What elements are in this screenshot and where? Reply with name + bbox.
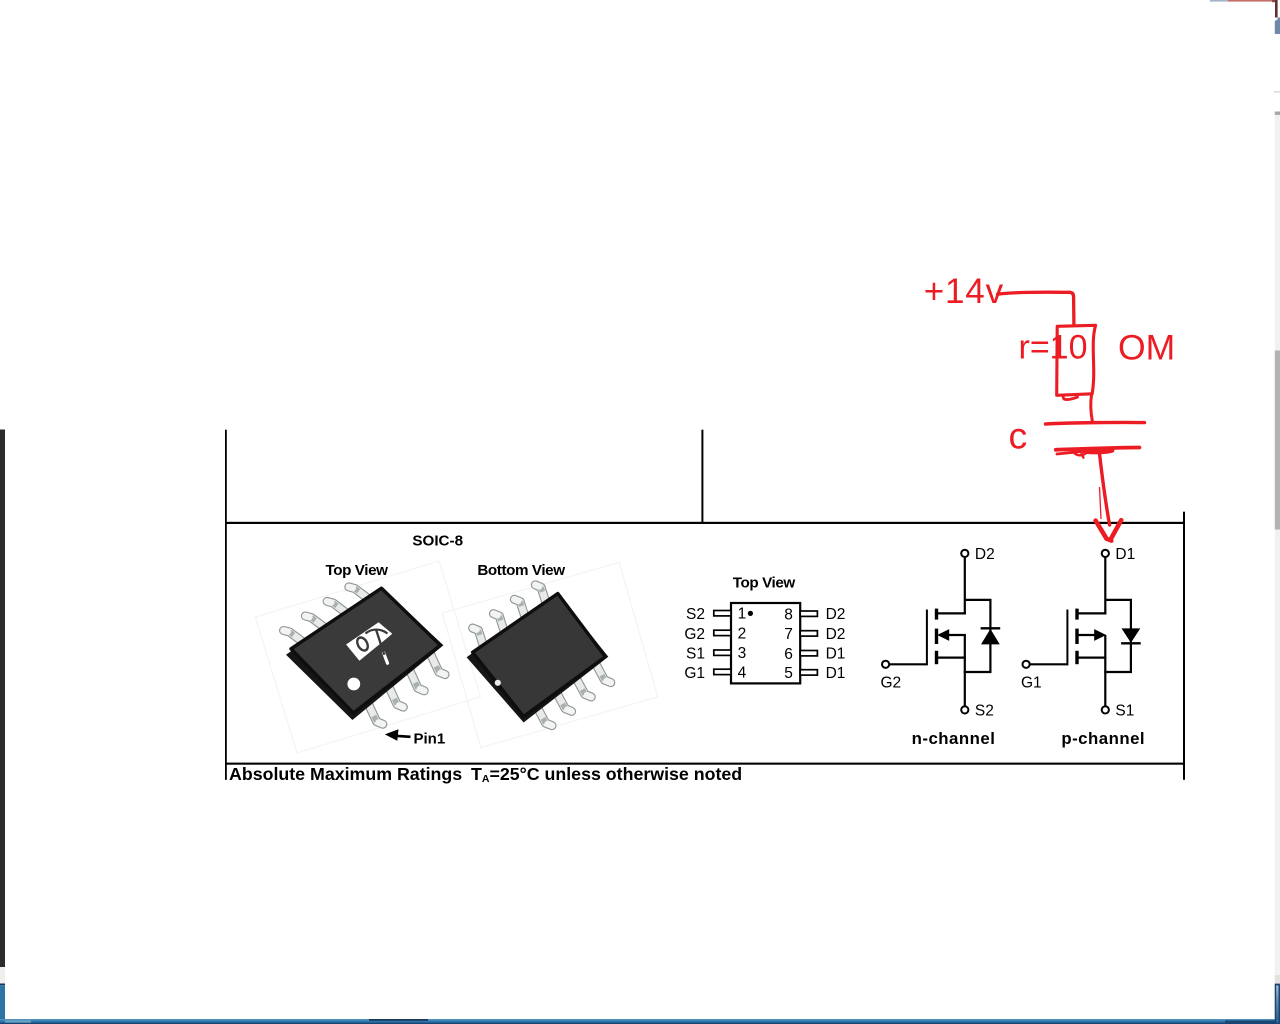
- svg-text:G1: G1: [684, 665, 705, 682]
- svg-text:OM: OM: [1118, 328, 1175, 368]
- svg-text:Bottom View: Bottom View: [477, 562, 565, 579]
- svg-text:2: 2: [738, 625, 747, 642]
- transistor Q1 n-channel: [882, 550, 1000, 714]
- table rule: upper-left vertical: [225, 430, 227, 780]
- pin stub left 3: [714, 650, 731, 655]
- svg-text:D2: D2: [826, 606, 846, 623]
- svg-text:n-channel: n-channel: [912, 729, 996, 748]
- pin1 dot marker: [748, 611, 753, 616]
- pin1 white dot on package: [347, 678, 360, 691]
- pin stub right 6: [800, 651, 817, 656]
- svg-text:5: 5: [784, 665, 793, 682]
- Pin1 callout arrow: [395, 736, 411, 737]
- svg-text:+14v: +14v: [924, 272, 1004, 311]
- svg-text:Top View: Top View: [325, 562, 388, 579]
- pin stub right 7: [800, 631, 817, 636]
- figure box right vertical: [1183, 512, 1185, 780]
- resistor R1 (hand drawn box): [1057, 325, 1096, 395]
- svg-text:S2: S2: [686, 606, 705, 623]
- svg-text:D2: D2: [826, 626, 846, 643]
- right scrollbar: [1274, 91, 1280, 92]
- svg-text:3: 3: [738, 645, 747, 662]
- svg-text:D1: D1: [1115, 546, 1135, 563]
- SOIC-8 package top view: leads upper-left: [284, 587, 370, 644]
- capacitor C1 bottom plate: [1056, 448, 1140, 450]
- svg-text:7: 7: [784, 626, 793, 643]
- wire resistor to capacitor: [1091, 394, 1093, 421]
- svg-text:4: 4: [738, 664, 747, 681]
- top-right window fragment: [1210, 0, 1228, 2]
- pin stub right 5: [800, 670, 817, 675]
- svg-text:c: c: [1009, 415, 1028, 457]
- svg-text:D1: D1: [826, 665, 846, 682]
- SOIC-8 package bottom view: leads upper-left: [473, 585, 547, 649]
- SOIC-8 package bottom view: body: [467, 593, 609, 723]
- svg-text:SOIC-8: SOIC-8: [412, 532, 463, 549]
- svg-text:p-channel: p-channel: [1061, 729, 1145, 748]
- wire from +14v to resistor: [998, 292, 1074, 324]
- svg-text:S2: S2: [975, 703, 994, 720]
- svg-text:Top View: Top View: [733, 575, 796, 592]
- red arrow wire down to D1: [1099, 453, 1109, 525]
- left window edge dark bar: [0, 430, 5, 968]
- figure box bottom rule: [225, 763, 1185, 765]
- faint photo border (top view): [255, 561, 480, 753]
- pin stub left 1: [714, 611, 731, 616]
- SOIC-8 package top view: body: [286, 587, 443, 720]
- svg-text:G2: G2: [684, 626, 705, 643]
- svg-text:Pin1: Pin1: [414, 730, 446, 747]
- svg-text:G2: G2: [881, 674, 902, 691]
- svg-text:D1: D1: [826, 646, 846, 663]
- figure box top rule: [225, 522, 1185, 524]
- svg-text:6: 6: [784, 646, 793, 663]
- capacitor C1 top plate: [1046, 422, 1145, 424]
- bottom view small white dot on edge: [495, 680, 501, 686]
- table rule: upper-middle vertical: [701, 430, 703, 523]
- svg-text:S1: S1: [686, 646, 705, 663]
- transistor Q2 p-channel: [1023, 550, 1141, 714]
- pin stub right 8: [800, 611, 817, 616]
- faint photo border (bottom view): [442, 562, 657, 747]
- svg-text:8: 8: [784, 606, 793, 623]
- red arrowhead at D1: [1096, 521, 1107, 539]
- svg-text:S1: S1: [1115, 703, 1134, 720]
- svg-text:D2: D2: [975, 546, 995, 563]
- svg-text:1: 1: [738, 606, 747, 623]
- package logo (white label with stylized A): [346, 622, 392, 661]
- svg-text:Absolute Maximum RatingsTA=25°: Absolute Maximum RatingsTA=25°C unless o…: [229, 764, 742, 785]
- svg-text:G1: G1: [1021, 674, 1042, 691]
- pin stub left 2: [714, 630, 731, 635]
- SOIC-8 package top view: leads lower-right: [366, 650, 445, 724]
- pinout IC body: [731, 603, 800, 683]
- SOIC-8 package bottom view: leads lower-right: [535, 661, 611, 726]
- bottom-right navy corner: [1275, 984, 1280, 1024]
- svg-text:r=10: r=10: [1019, 328, 1088, 366]
- pin stub left 4: [714, 669, 731, 674]
